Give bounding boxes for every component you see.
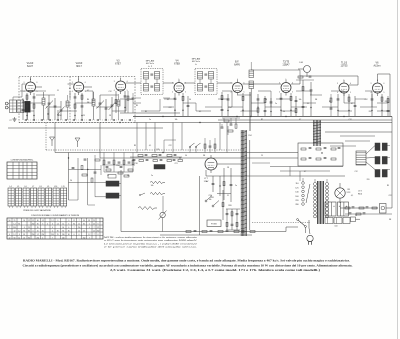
grid wire V2 (68, 83, 74, 85)
svg-text:25: 25 (93, 220, 95, 222)
svg-text:5: 5 (127, 90, 128, 92)
oscillator tuning CV2 (99, 95, 101, 120)
svg-text:RADIO MARELLI - Mod. RD167. Ra: RADIO MARELLI - Mod. RD167. Radioricevit… (23, 258, 350, 262)
vertical x206 (205, 170, 207, 176)
svg-text:a 20 C con la tensione rete mi: a 20 C con la tensione rete misurata con… (104, 239, 198, 242)
svg-text:C8: C8 (265, 99, 267, 101)
osc coil L5 (117, 100, 120, 106)
electrolytic block 2 (338, 202, 349, 216)
wire from bus to V9 (163, 140, 165, 153)
svg-text:R9: R9 (145, 111, 147, 113)
svg-text:1,2: 1,2 (51, 220, 53, 222)
bus y176 (206, 175, 345, 177)
svg-text:140: 140 (295, 192, 298, 194)
svg-text:1,2: 1,2 (88, 234, 90, 236)
AF row second layer (133, 159, 136, 161)
svg-text:85: 85 (68, 231, 70, 233)
right wires upper (325, 131, 392, 133)
svg-text:0,1: 0,1 (351, 195, 353, 197)
svg-text:3: 3 (172, 83, 173, 85)
svg-text:O.M.: O.M. (299, 62, 304, 64)
tone unit box (298, 143, 343, 166)
svg-text:6: 6 (37, 82, 38, 84)
cathode chain V7 (348, 94, 350, 116)
wire antenna to box (12, 97, 14, 100)
svg-text:90: 90 (68, 234, 70, 236)
svg-text:6AF6: 6AF6 (234, 64, 240, 67)
svg-text:R9: R9 (134, 145, 136, 147)
row two bottom right (345, 213, 392, 215)
svg-text:Le tensioni prese rispetto mas: Le tensioni prese rispetto massa - i val… (104, 242, 199, 245)
transformer top leads (314, 179, 316, 182)
cathode chain V4 (174, 93, 176, 116)
cable bundle upper (313, 120, 315, 146)
antenna mid symbol 2 (50, 137, 55, 141)
svg-text:R2: R2 (261, 119, 263, 121)
bus components row (138, 155, 143, 157)
bias rung 1 (95, 181, 106, 183)
svg-text:1: 1 (344, 80, 345, 82)
wire V4 to MF2 (184, 82, 195, 84)
svg-text:C22: C22 (388, 195, 391, 197)
HT bus y152.5 (55, 152, 298, 154)
svg-text:R14: R14 (228, 107, 231, 109)
heater rung mid (69, 181, 96, 183)
svg-text:220: 220 (367, 179, 370, 181)
svg-text:C12: C12 (354, 171, 357, 173)
svg-text:1,2: 1,2 (13, 234, 15, 236)
svg-text:110: 110 (295, 183, 298, 185)
svg-text:25: 25 (57, 234, 59, 236)
chain V7 right (354, 96, 356, 116)
svg-text:220: 220 (130, 99, 133, 101)
svg-text:R14: R14 (116, 165, 119, 167)
svg-text:C1: C1 (57, 90, 59, 92)
svg-text:220: 220 (369, 111, 372, 113)
wire bus to mains (285, 227, 287, 232)
svg-text:1: 1 (120, 78, 121, 80)
svg-text:6AU7: 6AU7 (27, 65, 34, 68)
trimmer C4 (54, 105, 57, 107)
svg-text:1: 1 (30, 79, 31, 81)
svg-text:L5: L5 (17, 186, 19, 188)
svg-text:12TE5: 12TE5 (340, 65, 348, 68)
svg-text:1,2: 1,2 (57, 224, 59, 226)
tube V7 (339, 83, 349, 93)
vertical x100 (99, 123, 101, 159)
svg-text:6: 6 (185, 83, 186, 85)
svg-text:0,1: 0,1 (149, 145, 151, 147)
svg-text:5: 5 (185, 92, 186, 94)
svg-text:1: 1 (237, 79, 238, 81)
cluster below V3 (103, 160, 105, 164)
magic eye parts (298, 76, 303, 78)
junction dots bus (162, 116, 163, 117)
mains switch (298, 220, 305, 226)
svg-text:250: 250 (32, 224, 35, 226)
svg-text:5: 5 (384, 92, 385, 94)
oscillator coil L4 (92, 99, 95, 106)
wire V1 plate (36, 86, 43, 88)
bottom bus y232 (121, 231, 286, 233)
svg-text:12: 12 (32, 220, 34, 222)
svg-text:20: 20 (70, 180, 72, 182)
svg-text:220: 220 (295, 200, 298, 202)
chain below V3 (115, 91, 117, 113)
svg-text:MF1-AM: MF1-AM (146, 60, 155, 63)
chain V8 right (387, 96, 389, 116)
svg-text:AL5nn: AL5nn (374, 65, 382, 68)
svg-text:85: 85 (88, 220, 90, 222)
svg-text:3: 3 (24, 82, 25, 84)
svg-text:2n: 2n (235, 185, 237, 187)
svg-text:CORRISPONDENZA FREQ.: CORRISPONDENZA FREQ. (11, 159, 34, 162)
svg-text:250: 250 (51, 234, 54, 236)
svg-text:25: 25 (23, 238, 25, 240)
filter resistor (351, 217, 356, 222)
svg-text:5: 5 (37, 91, 38, 93)
svg-text:12: 12 (62, 224, 64, 226)
vertical drops bus to AF row (136, 123, 138, 153)
cathode chain V1 (26, 93, 28, 120)
AVC bus dashed (46, 149, 245, 151)
dashed drop from box (45, 123, 47, 151)
svg-text:90: 90 (23, 220, 25, 222)
svg-text:4: 4 (24, 91, 25, 93)
svg-text:R14: R14 (248, 135, 251, 137)
IF transformer MF2 (195, 69, 217, 95)
svg-text:6: 6 (384, 83, 385, 85)
dashed wire pot (252, 222, 310, 224)
svg-text:25: 25 (107, 175, 109, 177)
svg-text:50: 50 (185, 155, 187, 157)
svg-text:85: 85 (18, 224, 20, 226)
heater rung top (69, 169, 102, 171)
svg-text:6K17: 6K17 (76, 65, 82, 68)
secondary winding (326, 183, 329, 186)
svg-text:90: 90 (28, 238, 30, 240)
svg-text:5: 5 (292, 92, 293, 94)
plate chain V9 (223, 168, 225, 200)
screen chain V8 (381, 94, 383, 116)
detector cluster (224, 120, 229, 122)
svg-text:C22: C22 (240, 111, 243, 113)
svg-text:C22: C22 (168, 107, 171, 109)
wires above mains section (270, 166, 343, 168)
tuning capacitor CV1 (48, 95, 50, 120)
svg-text:1,2: 1,2 (37, 234, 39, 236)
tube V4 (174, 83, 184, 93)
svg-text:250: 250 (62, 238, 65, 240)
dark decoupling block (154, 165, 165, 170)
svg-text:25: 25 (93, 224, 95, 226)
trimmer C5 (60, 109, 63, 111)
svg-text:25: 25 (42, 231, 44, 233)
long vertical x121 (120, 170, 122, 232)
vertical interconnect stubs (69, 91, 71, 99)
svg-text:25: 25 (28, 227, 30, 229)
svg-text:CONDIZIONI NORMALI DI FUNZIONA: CONDIZIONI NORMALI DI FUNZIONAMENTO E TE… (31, 214, 80, 217)
svg-text:10k: 10k (209, 199, 212, 201)
tone unit parts (301, 148, 306, 150)
svg-text:4.7: 4.7 (351, 103, 353, 105)
cathode chain V8 (371, 94, 373, 116)
svg-text:R2: R2 (69, 88, 71, 90)
svg-text:L11: L11 (62, 186, 65, 188)
svg-text:1,2: 1,2 (18, 231, 20, 233)
wire V5 to V6 (243, 83, 282, 85)
zigzag resistor R18 (138, 207, 157, 210)
svg-text:12AV: 12AV (204, 180, 209, 183)
svg-text:90: 90 (9, 220, 11, 222)
svg-text:12: 12 (78, 231, 80, 233)
screen chain V1 (33, 93, 35, 120)
svg-text:R9: R9 (136, 105, 138, 107)
svg-text:50: 50 (189, 99, 191, 101)
svg-text:250: 250 (36, 238, 39, 240)
svg-text:C22: C22 (168, 145, 171, 147)
volume pot feed (162, 196, 164, 212)
svg-text:R14: R14 (58, 115, 61, 117)
rectifier valve (335, 188, 345, 198)
extra chain RF box (22, 100, 24, 120)
svg-text:C12: C12 (348, 119, 351, 121)
detector coil L6 (249, 70, 254, 78)
svg-text:NOTE: salvo indicazione le ten: NOTE: salvo indicazione le tensioni e le… (104, 236, 199, 239)
svg-text:160: 160 (295, 196, 298, 198)
svg-text:1: 1 (377, 80, 378, 82)
bus y128 (8, 127, 163, 129)
screen chain V6 (290, 93, 292, 116)
svg-text:4: 4 (371, 92, 372, 94)
svg-text:L9: L9 (47, 186, 49, 188)
svg-text:90: 90 (62, 227, 64, 229)
svg-text:R20: R20 (228, 205, 231, 207)
dashed enclosure gruppo AF (19, 77, 135, 123)
antenna coil shield (25, 101, 31, 112)
wire V2 plate (84, 86, 92, 88)
lower mid wires (217, 193, 231, 195)
tube V8 (373, 83, 383, 93)
svg-text:467 kc/s: 467 kc/s (146, 63, 155, 65)
svg-text:1,2: 1,2 (93, 231, 95, 233)
svg-text:C8: C8 (127, 175, 129, 177)
vertical x55 (54, 123, 56, 153)
svg-text:10k: 10k (151, 185, 154, 187)
waveband switch contact row (24, 119, 133, 121)
svg-text:C1: C1 (223, 119, 225, 121)
svg-text:4.7: 4.7 (299, 119, 301, 121)
svg-text:5: 5 (350, 92, 351, 94)
svg-text:85: 85 (23, 231, 25, 233)
svg-text:250: 250 (97, 231, 100, 233)
svg-text:L7: L7 (32, 186, 34, 188)
heater bottom hook (88, 204, 95, 206)
svg-text:6: 6 (127, 81, 128, 83)
svg-text:1: 1 (286, 79, 287, 81)
field network row (340, 207, 378, 209)
svg-text:C12: C12 (364, 99, 367, 101)
svg-text:e le prese sono indicativi del: e le prese sono indicativi del circuito … (104, 246, 198, 249)
screen chain V2 (81, 93, 83, 120)
svg-text:2n: 2n (275, 103, 277, 105)
page scan edge right (397, 0, 399, 339)
svg-text:4: 4 (279, 92, 280, 94)
padder C10 (111, 104, 114, 106)
bus y113 (120, 112, 180, 114)
wire V3 to MF1 (126, 82, 141, 84)
thick feed x250 (249, 92, 251, 131)
svg-text:10k: 10k (175, 119, 178, 121)
svg-text:6: 6 (292, 83, 293, 85)
output jack (380, 204, 387, 214)
svg-text:25: 25 (83, 231, 85, 233)
main HT bus y116.5 (133, 116, 392, 118)
heater ladder vertical 3 (87, 158, 89, 205)
svg-text:4: 4 (337, 92, 338, 94)
svg-text:2,5 watt. Consumo 31 watt. (Po: 2,5 watt. Consumo 31 watt. (Posizione C2… (110, 268, 321, 272)
svg-text:MF2-AM: MF2-AM (192, 58, 201, 61)
electrolytic row 2 (325, 218, 333, 224)
interconnect wires (20, 90, 46, 92)
lower mid left edge (199, 176, 201, 235)
bias dark resistor 1 (106, 181, 119, 186)
svg-text:85: 85 (28, 231, 30, 233)
svg-text:90: 90 (83, 220, 85, 222)
electrolytic block 1 (325, 202, 336, 216)
svg-text:3: 3 (279, 83, 280, 85)
ground input (14, 117, 16, 119)
svg-text:1,2: 1,2 (42, 220, 44, 222)
pot to bottom bus (162, 218, 164, 232)
plate chain V5 (242, 93, 244, 116)
zigzag resistor R17 (150, 192, 165, 194)
svg-text:25: 25 (14, 220, 16, 222)
wire shield down (27, 112, 29, 120)
mains plug (307, 235, 313, 241)
bias rung 2 (95, 196, 106, 198)
svg-text:12: 12 (73, 220, 75, 222)
svg-text:250: 250 (83, 238, 86, 240)
lower mid cluster A (212, 176, 214, 192)
terra terminal (5, 106, 8, 109)
svg-text:C21: C21 (174, 163, 177, 165)
detector chain (221, 92, 223, 116)
cathode chain V3 (124, 91, 126, 113)
bus y122.5 (19, 122, 135, 124)
svg-text:C8: C8 (109, 115, 111, 117)
svg-text:25: 25 (261, 155, 263, 157)
svg-text:3: 3 (231, 83, 232, 85)
svg-text:220: 220 (385, 101, 388, 103)
svg-text:25: 25 (257, 107, 259, 109)
wire V7 plate (349, 84, 358, 86)
svg-text:C1: C1 (227, 195, 229, 197)
svg-text:467 kc/s: 467 kc/s (192, 61, 201, 63)
grid chain V7 (337, 94, 339, 116)
svg-text:2n: 2n (151, 175, 153, 177)
svg-text:R2: R2 (241, 199, 243, 201)
svg-text:C12: C12 (108, 91, 111, 93)
svg-text:12: 12 (78, 224, 80, 226)
bottom bus components (186, 231, 191, 233)
ground bus y158 (100, 157, 298, 159)
svg-text:L4: L4 (10, 186, 12, 188)
svg-text:2n: 2n (149, 119, 151, 121)
svg-text:280: 280 (295, 204, 298, 206)
svg-text:50: 50 (355, 215, 357, 217)
svg-text:50: 50 (283, 111, 285, 113)
svg-text:6TE7: 6TE7 (115, 63, 121, 66)
svg-text:L6: L6 (25, 186, 27, 188)
coupling coil L3 (66, 101, 69, 107)
svg-text:25: 25 (83, 115, 85, 117)
padder C9 (105, 107, 108, 109)
svg-text:6: 6 (244, 83, 245, 85)
antenna mid symbol (75, 138, 80, 142)
svg-text:250: 250 (41, 234, 44, 236)
svg-text:90: 90 (14, 238, 16, 240)
svg-text:PRESE SUL LATO SALDATURE: PRESE SUL LATO SALDATURE (23, 209, 51, 212)
heater parts (82, 174, 87, 176)
svg-text:125: 125 (295, 187, 298, 189)
cathode chain V2 (74, 93, 76, 120)
svg-text:6TE8: 6TE8 (174, 63, 180, 66)
tube V3 (116, 81, 126, 91)
svg-text:12: 12 (28, 220, 30, 222)
bias dark resistor 2 (106, 193, 119, 198)
chain V4 right (187, 96, 189, 116)
tube V6 (281, 83, 291, 93)
bottom bus y235 (160, 234, 252, 236)
svg-text:90: 90 (37, 220, 39, 222)
svg-text:C35: C35 (242, 211, 245, 213)
input coil L1a (10, 100, 17, 113)
svg-text:85: 85 (62, 231, 64, 233)
svg-text:12: 12 (97, 227, 99, 229)
IF transformer MF1 (141, 69, 163, 95)
chain right of V5 (257, 94, 259, 116)
svg-text:3: 3 (72, 82, 73, 84)
cable bundle lower (240, 130, 242, 236)
svg-text:90: 90 (37, 224, 39, 226)
power transformer core (317, 181, 319, 224)
svg-text:0,1: 0,1 (199, 111, 201, 113)
svg-text:L10: L10 (54, 186, 57, 188)
speaker terminals (375, 143, 380, 151)
plate supply top wire (135, 97, 141, 99)
svg-text:L8: L8 (40, 186, 42, 188)
svg-text:C18: C18 (134, 163, 137, 165)
bus y120 right (218, 119, 392, 121)
svg-text:250: 250 (13, 227, 16, 229)
wire x249.8 (249, 140, 251, 230)
fono box (207, 220, 221, 227)
svg-text:250: 250 (32, 234, 35, 236)
svg-text:6: 6 (85, 82, 86, 84)
svg-text:C8: C8 (227, 167, 229, 169)
wire V6 plate (291, 83, 300, 85)
coil L2 (42, 98, 45, 105)
svg-text:250: 250 (62, 234, 65, 236)
coupling parts x330 (330, 98, 332, 102)
svg-text:85: 85 (23, 234, 25, 236)
tube V2 (74, 82, 84, 92)
speaker wires (366, 146, 375, 155)
chain 271 (270, 98, 272, 116)
volume potentiometer (160, 212, 165, 217)
chain x205-215 mid (204, 144, 206, 148)
